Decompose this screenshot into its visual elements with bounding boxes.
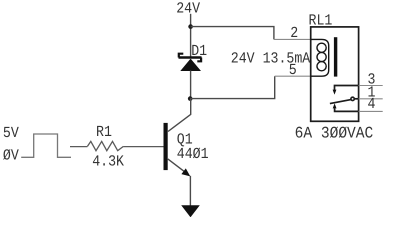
relay pin 3 stub [359, 85, 383, 87]
wire relay pin 5 stub [275, 75, 311, 77]
wire node B to relay pin5 corner [190, 76, 275, 98]
svg-text:4.3K: 4.3K [92, 152, 124, 170]
input pulse waveform annotation [21, 134, 71, 157]
transistor Q1 emitter lead [168, 159, 186, 173]
wire emitter to ground [189, 176, 191, 206]
svg-text:2: 2 [290, 24, 298, 42]
ground symbol [181, 205, 200, 217]
relay coil loop 2 [317, 52, 326, 61]
junction dot B (collector node) [188, 96, 193, 101]
svg-text:5: 5 [289, 61, 297, 79]
svg-text:ØV: ØV [3, 146, 20, 164]
diode D1 schottky cathode bar [179, 54, 202, 62]
wire input to resistor R1 [70, 146, 87, 148]
relay core bar [334, 37, 337, 76]
wire 24V rail to relay pin2 corner [191, 27, 274, 40]
wire 24V lead down to D1 [190, 14, 192, 57]
svg-text:44Ø1: 44Ø1 [177, 145, 209, 163]
relay contact pin 3 internal lead [335, 86, 359, 91]
relay coil loop 1 [317, 43, 326, 52]
relay contact pin 1 internal lead [354, 98, 358, 100]
wire resistor R1 to Q1 base [123, 146, 163, 148]
resistor R1 zigzag body [87, 141, 123, 150]
svg-text:24V: 24V [176, 0, 200, 18]
relay coil outer outline pin2 to pin5 [311, 39, 329, 76]
relay pin 1 stub [359, 98, 383, 100]
svg-text:4: 4 [368, 95, 376, 113]
svg-text:R1: R1 [96, 123, 112, 141]
transistor Q1 emitter arrowhead [181, 168, 190, 176]
diode D1 anode triangle [180, 59, 201, 71]
relay RL1 body box [311, 27, 359, 121]
relay pin 4 stub [359, 110, 383, 112]
transistor Q1 base bar [164, 123, 168, 170]
svg-text:5V: 5V [3, 124, 20, 142]
wire collector lead [168, 99, 191, 132]
relay contact pivot circle [351, 97, 354, 100]
wire relay pin 2 stub [274, 38, 311, 40]
relay contact pin 4 internal lead [335, 108, 359, 111]
relay coil loop 3 [317, 62, 326, 71]
relay contact lever arm [330, 100, 351, 104]
svg-text:24V 13.5mA: 24V 13.5mA [231, 50, 311, 68]
relay contact pin 3 arrow (normally open) [333, 90, 337, 95]
relay contact pin 4 arrow (normally closed) [333, 103, 337, 108]
wire D1 anode down to node B [190, 71, 192, 99]
junction dot A (24V rail tap) [188, 24, 193, 29]
svg-text:6A 3ØØVAC: 6A 3ØØVAC [295, 125, 374, 143]
